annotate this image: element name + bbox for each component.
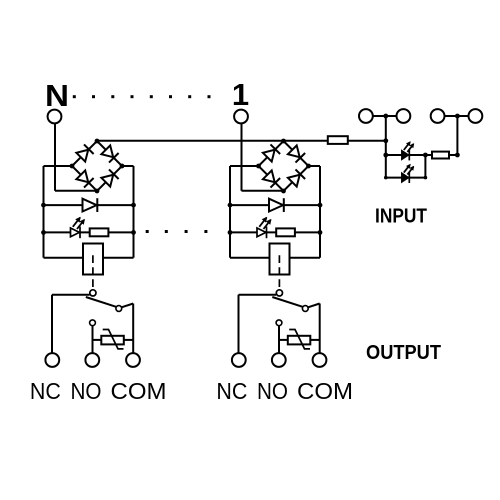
wire varistor right xyxy=(310,339,319,341)
svg-text:COM: COM xyxy=(111,378,167,404)
channel 1 relay circuit xyxy=(216,110,353,404)
node bridge right (DC+) xyxy=(120,164,125,169)
left rail xyxy=(43,166,45,258)
svg-text:NC: NC xyxy=(30,378,61,404)
svg-text:INPUT: INPUT xyxy=(375,205,427,228)
wire NC drop xyxy=(238,295,240,354)
bridge diode bottom-left xyxy=(263,170,275,182)
NO contact circle xyxy=(276,320,282,326)
terminal COM xyxy=(313,353,327,367)
wire input line from bridges to input section xyxy=(97,140,386,142)
dotted ellipsis between N and 1 xyxy=(73,95,76,98)
junction diode row right xyxy=(318,203,323,208)
junction dot terminals 3-4 xyxy=(455,114,460,119)
wire bridge left node to left rail xyxy=(44,165,73,167)
left rail xyxy=(229,166,231,258)
node bridge bottom (AC) xyxy=(95,189,100,194)
bridge diode bottom-right xyxy=(101,175,113,187)
junction diode row left xyxy=(228,203,233,208)
node bridge left (DC-) xyxy=(70,164,75,169)
junction LED row right xyxy=(318,230,323,235)
node bridge top (AC) xyxy=(281,139,286,144)
wire NO drop xyxy=(278,326,280,354)
dotted ellipsis between channels xyxy=(146,230,149,233)
wire NO drop xyxy=(92,326,94,354)
svg-text:OUTPUT: OUTPUT xyxy=(366,341,441,364)
varistor RVN xyxy=(101,336,124,345)
COM rail xyxy=(319,304,321,354)
wire branch A to resistor xyxy=(425,154,457,156)
svg-text:NC: NC xyxy=(216,378,247,404)
bridge diode top-right xyxy=(288,145,300,157)
bridge diode top-left xyxy=(76,150,88,162)
wire lever to COM rail xyxy=(122,304,134,308)
flyback diode DN xyxy=(83,199,97,212)
wire to bridge bottom node xyxy=(55,190,97,192)
wire LED row xyxy=(230,231,320,233)
switch pivot contact circle xyxy=(276,290,282,296)
relay coil K1 xyxy=(270,244,290,275)
junction LED branch B left xyxy=(384,176,388,180)
svg-text:NO: NO xyxy=(257,378,288,404)
input LED A arrows xyxy=(404,142,410,150)
bridge diode top-left xyxy=(263,150,275,162)
wire terminal 1 down xyxy=(241,123,243,190)
wire varistor right xyxy=(124,339,133,341)
svg-text:COM: COM xyxy=(297,378,353,404)
wire bridge left node to left rail xyxy=(230,165,259,167)
terminal NO xyxy=(272,353,286,367)
LED VN xyxy=(71,228,80,237)
resistor R input line xyxy=(328,136,348,144)
resistor RN xyxy=(90,228,109,236)
junction diode row right xyxy=(131,203,136,208)
COM rail xyxy=(132,304,134,354)
LED VN emission arrows xyxy=(73,218,80,227)
input terminal circle 1 xyxy=(359,109,373,123)
right rail xyxy=(319,166,321,258)
LED V1 xyxy=(257,228,266,237)
junction dot resistor right xyxy=(455,153,460,158)
wire between input terminals 1-2 xyxy=(366,115,404,117)
node bridge bottom (AC) xyxy=(281,189,286,194)
junction LED branch B right xyxy=(424,176,428,180)
svg-text:NO: NO xyxy=(71,378,102,404)
wire diode row xyxy=(230,204,320,206)
wire bridge right node to right rail xyxy=(309,165,321,167)
wire bottom rail xyxy=(230,257,320,259)
input terminal circle 2 xyxy=(397,109,411,123)
switch lever xyxy=(86,297,117,307)
terminal NC xyxy=(232,353,246,367)
coil actuator dashed link xyxy=(92,255,94,289)
node bridge top (AC) xyxy=(95,139,100,144)
wire vertical joining branches right xyxy=(424,155,426,178)
wire terminal N down xyxy=(54,123,56,190)
terminal NC xyxy=(45,353,59,367)
lever end circle xyxy=(116,306,122,312)
input terminal circle 3 xyxy=(431,109,445,123)
junction LED row right xyxy=(131,230,136,235)
varistor RV1 xyxy=(288,336,311,345)
wire NC contact xyxy=(52,294,90,296)
wire between input terminals 3-4 xyxy=(438,115,476,117)
wire NC contact xyxy=(239,294,277,296)
input LED A xyxy=(402,151,409,160)
bridge rectifier BN arms xyxy=(72,141,122,191)
wire diode row xyxy=(44,204,134,206)
junction LED row left xyxy=(228,230,233,235)
switch lever xyxy=(272,297,303,307)
bridge rectifier B1 arms xyxy=(259,141,309,191)
wire vertical terminals 3-4 down xyxy=(456,116,458,155)
terminal 1 top circle xyxy=(234,110,248,124)
svg-text:N: N xyxy=(45,78,69,113)
lever end circle xyxy=(302,306,308,312)
resistor R1 xyxy=(276,228,295,236)
node bridge right (DC+) xyxy=(306,164,311,169)
channel N relay circuit xyxy=(30,110,167,404)
junction diode row left xyxy=(41,203,46,208)
switch pivot contact circle xyxy=(90,290,96,296)
wire vertical from terminals 1-2 junction xyxy=(385,116,387,178)
NO contact circle xyxy=(90,320,96,326)
input LED B arrows xyxy=(404,165,410,173)
terminal N top circle xyxy=(48,110,62,124)
node bridge left (DC-) xyxy=(256,164,261,169)
resistor R2 input xyxy=(432,152,449,159)
bridge diode top-right xyxy=(101,145,113,157)
coil actuator dashed link xyxy=(278,255,280,289)
flyback diode D1 xyxy=(269,199,283,212)
LED V1 emission arrows xyxy=(259,218,266,227)
junction LED branch A left xyxy=(383,153,388,158)
wire NC drop xyxy=(51,295,53,354)
wire LED branch B xyxy=(386,177,426,179)
terminal COM xyxy=(126,353,140,367)
wire lever to COM rail xyxy=(308,304,320,308)
svg-text:1: 1 xyxy=(232,77,249,112)
wire bridge right node to right rail xyxy=(122,165,134,167)
wire varistor left xyxy=(93,339,102,341)
bridge diode bottom-right xyxy=(288,175,300,187)
wire bottom rail xyxy=(44,257,134,259)
bridge diode bottom-left xyxy=(76,170,88,182)
wire to bridge bottom node xyxy=(242,190,284,192)
input LED B xyxy=(402,173,409,182)
relay coil KN xyxy=(83,244,103,275)
input terminal circle 4 xyxy=(469,109,483,123)
right rail xyxy=(133,166,135,258)
junction dot terminals 1-2 xyxy=(383,114,388,119)
wire LED branch A xyxy=(386,154,426,156)
wire LED row xyxy=(44,231,134,233)
junction LED row left xyxy=(41,230,46,235)
wire varistor left xyxy=(279,339,288,341)
junction LED branch A right xyxy=(423,153,428,158)
terminal NO xyxy=(85,353,99,367)
junction dot input line xyxy=(383,138,388,143)
